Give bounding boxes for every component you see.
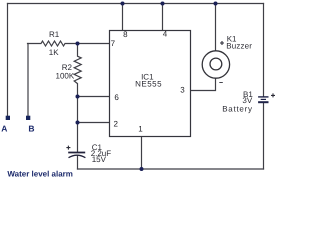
svg-text:NE555: NE555 <box>135 79 162 88</box>
svg-text:6: 6 <box>114 93 119 102</box>
svg-text:B: B <box>28 124 34 134</box>
svg-text:100K: 100K <box>56 71 75 80</box>
svg-text:1: 1 <box>138 125 143 134</box>
svg-text:A: A <box>1 124 7 134</box>
svg-text:3: 3 <box>180 86 185 95</box>
svg-text:R1: R1 <box>49 30 60 39</box>
svg-text:Water level alarm: Water level alarm <box>7 170 73 179</box>
svg-text:8: 8 <box>123 30 128 39</box>
svg-text:Buzzer: Buzzer <box>226 41 252 50</box>
svg-text:2: 2 <box>114 120 119 129</box>
svg-text:Battery: Battery <box>222 104 253 113</box>
svg-text:7: 7 <box>111 39 116 48</box>
svg-text:4: 4 <box>163 30 168 39</box>
svg-text:15V: 15V <box>92 155 107 164</box>
svg-text:1K: 1K <box>49 48 59 57</box>
